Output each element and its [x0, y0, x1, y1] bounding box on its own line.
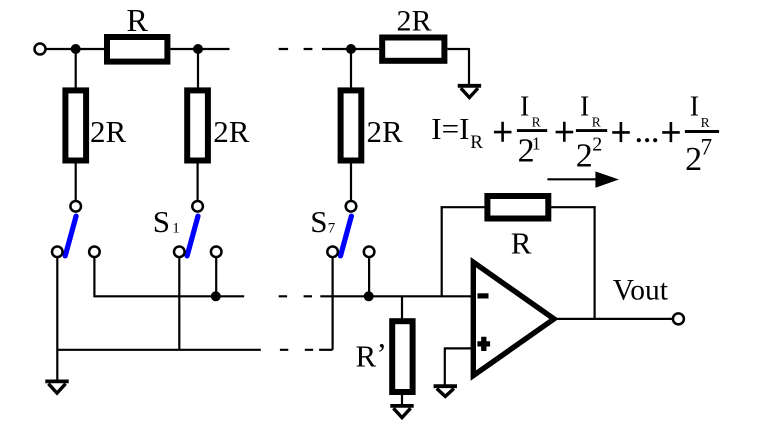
- switch S0 lever (blue): [65, 216, 76, 256]
- op-amp U1: [473, 262, 554, 375]
- junction dot S7 on summing bus: [364, 291, 374, 301]
- resistor 2R #2 (vertical): [187, 90, 208, 160]
- ground bus left segment: [57, 349, 260, 351]
- wire to node C: [322, 48, 379, 50]
- svg-text:2R: 2R: [367, 114, 404, 149]
- ground bus right segment: [319, 349, 333, 351]
- wire S0 left contact down to ground bus and ground: [56, 258, 58, 381]
- resistor 2R #1 (vertical): [65, 90, 86, 160]
- svg-text:2: 2: [685, 141, 702, 178]
- switch S7 right throw contact: [364, 247, 375, 258]
- resistor 2R top (horizontal): [382, 38, 444, 61]
- summing bus left segment: [94, 295, 244, 297]
- svg-text:S: S: [310, 204, 327, 239]
- feedback wire left vertical: [441, 206, 443, 296]
- feedback wire right vertical: [593, 206, 595, 319]
- current direction arrow head: [595, 171, 619, 187]
- svg-text:2R: 2R: [90, 114, 127, 149]
- switch S0 right throw contact: [89, 247, 100, 258]
- fraction 1 bar: [517, 129, 547, 132]
- switch S1 pole contact: [192, 201, 203, 212]
- current direction arrow line: [547, 178, 601, 180]
- switch S1 right throw contact: [211, 247, 222, 258]
- svg-text:I: I: [520, 92, 529, 123]
- svg-text:S: S: [153, 204, 170, 239]
- switch S0 pole contact: [70, 201, 81, 212]
- wire node B down to 2R #2: [197, 49, 199, 91]
- fraction 2 bar: [576, 129, 607, 132]
- resistor 2R #3 (vertical): [341, 90, 362, 160]
- formula plus 4: [662, 122, 680, 142]
- wire R1 to node B: [170, 48, 229, 50]
- formula plus 1: [494, 122, 512, 142]
- wire non-inverting down to ground: [444, 347, 446, 386]
- wire non-inverting input: [445, 347, 472, 349]
- svg-text:Vout: Vout: [613, 275, 669, 307]
- ground top right: [458, 86, 481, 98]
- svg-text:R: R: [470, 132, 483, 153]
- svg-text:I: I: [690, 92, 699, 123]
- svg-text:R: R: [511, 226, 532, 261]
- summing bus dashed segment: [279, 295, 313, 297]
- resistor R1 (top horizontal R): [107, 37, 167, 62]
- switch S7 left throw contact: [327, 247, 338, 258]
- ground bottom left: [45, 381, 68, 393]
- svg-text:2: 2: [576, 137, 593, 174]
- wire summing bus to R': [401, 296, 403, 322]
- wire R' to ground: [401, 393, 403, 407]
- wire S7 right contact down to summing bus: [368, 258, 370, 298]
- switch S0 left throw contact: [52, 247, 63, 258]
- wire S7 left contact down to ground bus: [332, 258, 334, 350]
- svg-text:R: R: [532, 114, 541, 129]
- ground below R': [390, 406, 413, 418]
- switch S7 pole contact: [346, 201, 357, 212]
- svg-text:1: 1: [172, 221, 180, 237]
- ground at op-amp plus input: [434, 386, 457, 396]
- wire dashed continuation top: [279, 48, 313, 50]
- svg-text:2R: 2R: [213, 114, 250, 149]
- svg-text:’: ’: [377, 336, 387, 371]
- ground bus dashed segment: [280, 349, 314, 351]
- svg-text:R: R: [701, 115, 710, 130]
- op-amp minus pin mark: [478, 293, 489, 298]
- op-amp plus pin mark: [477, 337, 490, 351]
- switch S1 left throw contact: [174, 247, 185, 258]
- summing bus right segment to op-amp inverting input: [320, 295, 471, 297]
- fraction 3 bar: [685, 130, 719, 133]
- formula plus 2: [556, 122, 574, 142]
- wire S0 right contact down to summing bus: [93, 258, 95, 298]
- svg-text:1: 1: [532, 134, 541, 154]
- formula plus 3: [612, 122, 630, 142]
- switch S1 lever (blue): [187, 216, 198, 256]
- wire node A down to 2R #1: [75, 49, 77, 91]
- wire S1 left contact down to ground bus: [178, 258, 180, 350]
- svg-text:R: R: [127, 2, 149, 38]
- node B junction dot: [193, 44, 203, 54]
- wire 2R #2 to switch S1 pole: [197, 161, 199, 201]
- svg-text:2: 2: [592, 134, 602, 156]
- wire corner down to ground: [468, 48, 470, 85]
- svg-text:R: R: [592, 114, 601, 129]
- wire S1 right contact down to summing bus: [215, 258, 217, 298]
- input terminal: [35, 44, 46, 55]
- wire 2R #1 to switch S0 pole: [75, 161, 77, 201]
- switch S7 lever (blue): [341, 216, 352, 256]
- svg-text:7: 7: [701, 135, 713, 160]
- wire 2R #3 to switch S7 pole: [350, 161, 352, 201]
- wire node C down to 2R #3: [350, 49, 352, 91]
- svg-text:I=I: I=I: [431, 111, 469, 146]
- svg-text:I: I: [580, 92, 589, 123]
- feedback wire top right horizontal: [548, 206, 596, 208]
- formula ellipsis: [637, 138, 658, 142]
- resistor R': [392, 321, 412, 392]
- svg-text:7: 7: [328, 221, 336, 237]
- svg-text:2R: 2R: [397, 5, 432, 38]
- node C junction dot: [346, 44, 356, 54]
- wire input to node A: [46, 48, 104, 50]
- resistor R feedback: [487, 196, 548, 219]
- svg-text:R: R: [356, 339, 377, 374]
- wire 2R top to corner: [447, 48, 469, 50]
- output terminal: [673, 313, 684, 324]
- node A junction dot: [71, 44, 81, 54]
- feedback wire top left horizontal: [441, 206, 488, 208]
- output wire: [553, 318, 673, 320]
- junction dot S1 on summing bus: [211, 291, 221, 301]
